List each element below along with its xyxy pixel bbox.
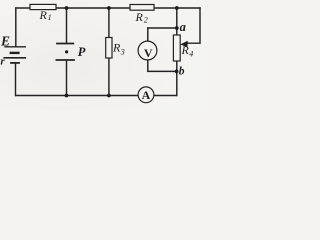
svg-text:P: P [78,45,86,59]
svg-text:1: 1 [48,13,52,22]
svg-text:3: 3 [120,48,125,57]
svg-text:R: R [39,8,48,22]
svg-text:4: 4 [189,50,193,59]
svg-text:2: 2 [144,16,148,25]
svg-text:V: V [144,46,153,60]
svg-text:E: E [0,33,10,48]
svg-text:R: R [135,10,144,24]
svg-text:a: a [180,20,186,34]
svg-text:R: R [112,41,121,55]
svg-text:A: A [142,88,151,102]
svg-text:b: b [179,66,185,78]
svg-text:R: R [181,43,190,57]
svg-text:r: r [0,56,5,68]
